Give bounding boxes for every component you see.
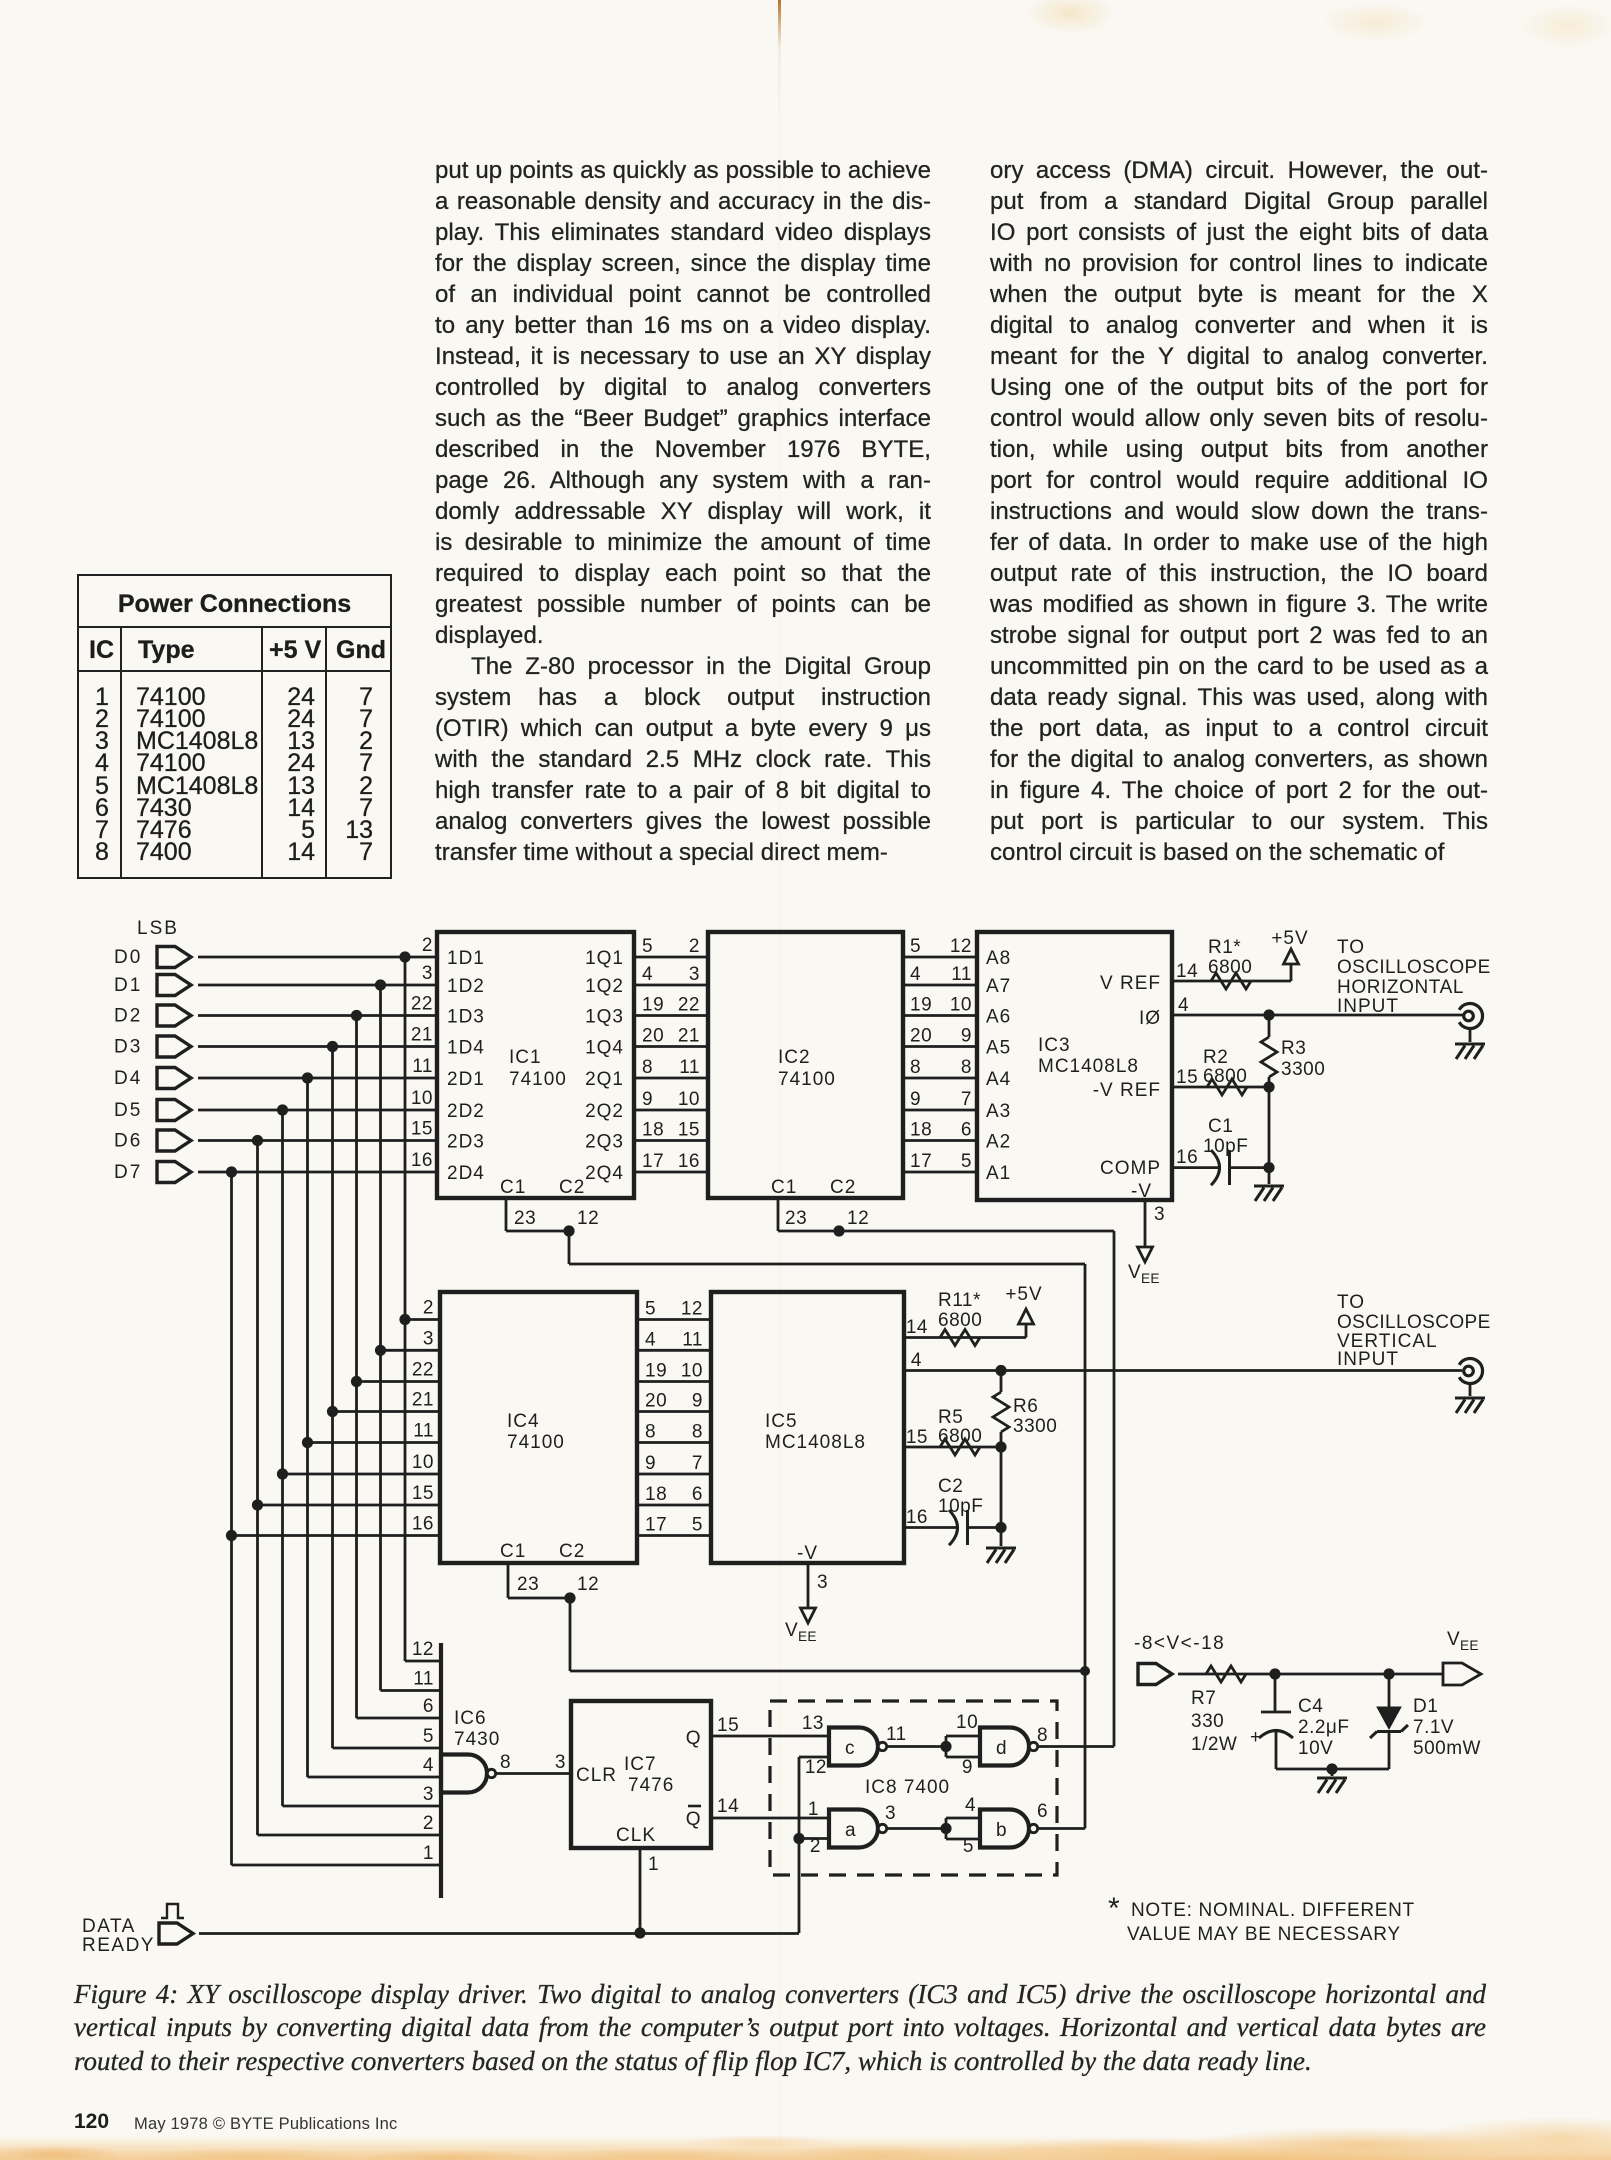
svg-text:5: 5 [423, 1726, 434, 1747]
svg-text:IØ: IØ [1139, 1008, 1161, 1029]
svg-text:Q: Q [686, 1809, 701, 1830]
svg-text:74100: 74100 [509, 1069, 567, 1090]
svg-text:12: 12 [805, 1757, 827, 1778]
svg-text:7.1V: 7.1V [1413, 1717, 1454, 1738]
svg-text:12: 12 [847, 1208, 869, 1229]
svg-text:+: + [1250, 1727, 1262, 1748]
svg-text:IC5: IC5 [765, 1411, 798, 1432]
svg-text:3: 3 [423, 1328, 434, 1349]
svg-text:VALUE MAY BE NECESSARY: VALUE MAY BE NECESSARY [1127, 1924, 1401, 1945]
svg-text:1D3: 1D3 [447, 1007, 485, 1028]
svg-text:2: 2 [689, 936, 700, 957]
svg-text:8: 8 [961, 1057, 972, 1078]
svg-text:2Q4: 2Q4 [585, 1163, 624, 1184]
svg-text:10: 10 [411, 1088, 433, 1109]
svg-text:10pF: 10pF [1203, 1136, 1248, 1157]
svg-text:1Q4: 1Q4 [585, 1038, 624, 1059]
svg-text:6: 6 [961, 1120, 972, 1141]
svg-text:21: 21 [678, 1026, 700, 1047]
svg-text:22: 22 [411, 994, 433, 1015]
svg-text:5: 5 [963, 1836, 974, 1857]
svg-text:D2: D2 [114, 1006, 142, 1027]
svg-text:17: 17 [642, 1151, 664, 1172]
svg-text:19: 19 [645, 1361, 667, 1382]
svg-text:15: 15 [906, 1427, 928, 1448]
svg-text:6: 6 [1037, 1801, 1048, 1822]
svg-text:7430: 7430 [454, 1729, 500, 1750]
svg-text:10: 10 [412, 1452, 434, 1473]
svg-text:V: V [1447, 1629, 1460, 1650]
svg-text:C2: C2 [830, 1177, 856, 1198]
svg-text:HORIZONTAL: HORIZONTAL [1337, 977, 1464, 998]
svg-text:19: 19 [910, 995, 932, 1016]
svg-text:1D2: 1D2 [447, 976, 485, 997]
svg-text:A1: A1 [986, 1163, 1011, 1184]
svg-text:C1: C1 [1208, 1116, 1233, 1137]
svg-text:18: 18 [645, 1484, 667, 1505]
svg-text:R2: R2 [1203, 1047, 1228, 1068]
svg-text:8: 8 [645, 1422, 656, 1443]
svg-text:2Q2: 2Q2 [585, 1101, 624, 1122]
svg-text:INPUT: INPUT [1337, 996, 1399, 1017]
svg-text:2D3: 2D3 [447, 1132, 485, 1153]
svg-text:15: 15 [412, 1483, 434, 1504]
svg-text:V: V [785, 1620, 798, 1641]
svg-text:R5: R5 [938, 1407, 963, 1428]
svg-text:A3: A3 [986, 1101, 1011, 1122]
svg-text:12: 12 [950, 936, 972, 957]
svg-text:1Q3: 1Q3 [585, 1007, 624, 1028]
svg-text:a: a [845, 1820, 856, 1841]
svg-text:7: 7 [692, 1453, 703, 1474]
svg-text:A8: A8 [986, 948, 1011, 969]
svg-text:-V: -V [1131, 1181, 1152, 1202]
svg-text:-V REF: -V REF [1093, 1080, 1161, 1101]
svg-text:CLK: CLK [616, 1825, 656, 1846]
svg-text:11: 11 [413, 1669, 434, 1690]
svg-text:V: V [1128, 1262, 1141, 1283]
svg-text:14: 14 [717, 1796, 739, 1817]
svg-text:22: 22 [412, 1360, 434, 1381]
svg-text:3: 3 [817, 1572, 828, 1593]
svg-text:A5: A5 [986, 1038, 1011, 1059]
svg-text:A7: A7 [986, 976, 1011, 997]
svg-text:A4: A4 [986, 1069, 1011, 1090]
svg-text:10: 10 [956, 1712, 978, 1733]
svg-text:9: 9 [642, 1089, 653, 1110]
svg-text:4: 4 [642, 964, 653, 985]
svg-text:13: 13 [802, 1713, 824, 1734]
svg-text:C2: C2 [559, 1177, 585, 1198]
svg-text:11: 11 [679, 1057, 700, 1078]
svg-text:8: 8 [692, 1422, 703, 1443]
svg-text:2: 2 [422, 935, 433, 956]
svg-text:14: 14 [906, 1317, 928, 1338]
svg-text:8: 8 [642, 1057, 653, 1078]
svg-text:2Q1: 2Q1 [585, 1069, 624, 1090]
svg-text:EE: EE [798, 1629, 817, 1644]
svg-text:10V: 10V [1298, 1738, 1333, 1759]
svg-text:5: 5 [642, 936, 653, 957]
svg-text:2.2μF: 2.2μF [1298, 1717, 1349, 1738]
svg-text:4: 4 [423, 1755, 434, 1776]
svg-text:16: 16 [1176, 1147, 1198, 1168]
svg-text:6: 6 [423, 1696, 434, 1717]
svg-text:12: 12 [577, 1208, 599, 1229]
svg-text:9: 9 [645, 1453, 656, 1474]
svg-text:7: 7 [961, 1089, 972, 1110]
svg-text:4: 4 [911, 1350, 922, 1371]
svg-text:IC3: IC3 [1038, 1035, 1071, 1056]
svg-text:10: 10 [681, 1361, 703, 1382]
svg-text:IC6: IC6 [454, 1708, 487, 1729]
svg-text:23: 23 [517, 1574, 539, 1595]
svg-text:D6: D6 [114, 1131, 142, 1152]
svg-text:16: 16 [411, 1150, 433, 1171]
svg-text:OSCILLOSCOPE: OSCILLOSCOPE [1337, 1312, 1491, 1333]
svg-text:2Q3: 2Q3 [585, 1132, 624, 1153]
svg-text:21: 21 [411, 1025, 433, 1046]
svg-text:1/2W: 1/2W [1191, 1734, 1237, 1755]
svg-text:18: 18 [642, 1120, 664, 1141]
svg-text:IC4: IC4 [507, 1411, 540, 1432]
svg-text:12: 12 [577, 1574, 599, 1595]
svg-text:2: 2 [423, 1298, 434, 1319]
svg-text:Q: Q [686, 1728, 701, 1749]
svg-text:2D4: 2D4 [447, 1163, 485, 1184]
svg-text:17: 17 [910, 1151, 932, 1172]
svg-text:9: 9 [692, 1391, 703, 1412]
svg-text:*: * [1108, 1892, 1120, 1925]
svg-text:20: 20 [645, 1391, 667, 1412]
svg-text:R6: R6 [1013, 1396, 1038, 1417]
svg-text:D1: D1 [1413, 1696, 1438, 1717]
svg-text:23: 23 [514, 1208, 536, 1229]
svg-text:d: d [996, 1738, 1007, 1759]
svg-text:R11*: R11* [938, 1290, 981, 1311]
svg-text:D1: D1 [114, 975, 142, 996]
svg-text:b: b [996, 1820, 1007, 1841]
svg-text:-V: -V [797, 1543, 818, 1564]
svg-text:1: 1 [648, 1854, 659, 1875]
svg-text:1: 1 [808, 1799, 819, 1820]
svg-text:5: 5 [645, 1299, 656, 1320]
svg-text:21: 21 [412, 1390, 434, 1411]
svg-text:23: 23 [785, 1208, 807, 1229]
svg-text:11: 11 [412, 1056, 433, 1077]
svg-text:19: 19 [642, 995, 664, 1016]
svg-text:CLR: CLR [576, 1765, 617, 1786]
svg-text:4: 4 [645, 1329, 656, 1350]
svg-text:6800: 6800 [938, 1310, 982, 1331]
svg-text:12: 12 [412, 1639, 434, 1660]
svg-text:1Q1: 1Q1 [585, 948, 624, 969]
svg-text:12: 12 [681, 1299, 703, 1320]
svg-text:IC2: IC2 [778, 1047, 811, 1068]
svg-text:14: 14 [1176, 961, 1198, 982]
svg-text:IC7: IC7 [624, 1754, 657, 1775]
svg-text:9: 9 [962, 1757, 973, 1778]
svg-text:5: 5 [910, 936, 921, 957]
svg-text:500mW: 500mW [1413, 1738, 1481, 1759]
svg-text:9: 9 [961, 1026, 972, 1047]
svg-text:R7: R7 [1191, 1688, 1216, 1709]
svg-text:3: 3 [423, 1784, 434, 1805]
svg-text:9: 9 [910, 1089, 921, 1110]
svg-text:10: 10 [950, 995, 972, 1016]
svg-text:1D1: 1D1 [447, 948, 485, 969]
svg-text:NOTE: NOMINAL. DIFFERENT: NOTE: NOMINAL. DIFFERENT [1131, 1900, 1415, 1921]
svg-text:A2: A2 [986, 1132, 1011, 1153]
svg-text:7476: 7476 [628, 1775, 674, 1796]
svg-text:C4: C4 [1298, 1696, 1323, 1717]
svg-text:5: 5 [961, 1151, 972, 1172]
svg-text:22: 22 [678, 995, 700, 1016]
svg-text:11: 11 [951, 964, 972, 985]
svg-text:EE: EE [1141, 1271, 1160, 1286]
svg-text:15: 15 [717, 1715, 739, 1736]
svg-text:74100: 74100 [778, 1069, 836, 1090]
svg-text:1: 1 [423, 1843, 434, 1864]
svg-text:COMP: COMP [1100, 1158, 1161, 1179]
svg-text:8: 8 [1037, 1725, 1048, 1746]
svg-text:D5: D5 [114, 1100, 142, 1121]
svg-text:18: 18 [910, 1120, 932, 1141]
svg-text:15: 15 [678, 1120, 700, 1141]
svg-text:10pF: 10pF [938, 1496, 983, 1517]
svg-text:A6: A6 [986, 1007, 1011, 1028]
svg-text:8: 8 [500, 1752, 511, 1773]
svg-text:2D1: 2D1 [447, 1069, 485, 1090]
svg-text:3: 3 [689, 964, 700, 985]
svg-text:D3: D3 [114, 1037, 142, 1058]
svg-text:74100: 74100 [507, 1432, 565, 1453]
svg-text:READY: READY [82, 1935, 155, 1956]
svg-text:MC1408L8: MC1408L8 [1038, 1056, 1139, 1077]
svg-text:4: 4 [910, 964, 921, 985]
svg-text:DATA: DATA [82, 1916, 136, 1937]
svg-text:OSCILLOSCOPE: OSCILLOSCOPE [1337, 957, 1491, 978]
svg-text:1D4: 1D4 [447, 1038, 485, 1059]
svg-text:IC1: IC1 [509, 1047, 542, 1068]
svg-text:V REF: V REF [1100, 973, 1161, 994]
svg-text:+5V: +5V [1271, 928, 1308, 949]
svg-text:330: 330 [1191, 1711, 1224, 1732]
svg-text:16: 16 [678, 1151, 700, 1172]
svg-text:4: 4 [965, 1795, 976, 1816]
svg-text:R3: R3 [1281, 1038, 1306, 1059]
svg-text:16: 16 [412, 1514, 434, 1535]
svg-text:MC1408L8: MC1408L8 [765, 1432, 866, 1453]
svg-text:1Q2: 1Q2 [585, 976, 624, 997]
svg-text:6800: 6800 [938, 1426, 982, 1447]
svg-text:15: 15 [1176, 1067, 1198, 1088]
svg-text:D0: D0 [114, 947, 142, 968]
svg-text:2: 2 [423, 1813, 434, 1834]
svg-text:11: 11 [682, 1329, 703, 1350]
svg-text:11: 11 [886, 1724, 907, 1745]
svg-text:17: 17 [645, 1515, 667, 1536]
svg-text:6800: 6800 [1203, 1066, 1247, 1087]
svg-text:3: 3 [1154, 1204, 1165, 1225]
svg-text:3: 3 [885, 1803, 896, 1824]
svg-text:11: 11 [413, 1421, 434, 1442]
svg-text:R1*: R1* [1208, 937, 1241, 958]
svg-text:20: 20 [642, 1026, 664, 1047]
svg-text:IC8 7400: IC8 7400 [865, 1777, 950, 1798]
svg-text:8: 8 [910, 1057, 921, 1078]
svg-text:4: 4 [1178, 995, 1189, 1016]
svg-text:20: 20 [910, 1026, 932, 1047]
svg-text:3300: 3300 [1013, 1416, 1057, 1437]
svg-text:3: 3 [422, 963, 433, 984]
svg-text:10: 10 [678, 1089, 700, 1110]
svg-text:c: c [845, 1738, 855, 1759]
svg-text:D7: D7 [114, 1162, 142, 1183]
svg-text:C1: C1 [771, 1177, 797, 1198]
svg-text:2D2: 2D2 [447, 1101, 485, 1122]
svg-text:3300: 3300 [1281, 1059, 1325, 1080]
svg-text:-8<V<-18: -8<V<-18 [1134, 1633, 1225, 1654]
svg-text:6800: 6800 [1208, 957, 1252, 978]
svg-text:15: 15 [411, 1119, 433, 1140]
svg-text:5: 5 [692, 1515, 703, 1536]
svg-text:EE: EE [1460, 1638, 1479, 1653]
svg-text:LSB: LSB [137, 918, 179, 939]
svg-text:TO: TO [1337, 937, 1365, 958]
svg-text:D4: D4 [114, 1068, 142, 1089]
svg-text:C2: C2 [938, 1476, 963, 1497]
svg-text:3: 3 [555, 1752, 566, 1773]
svg-text:C1: C1 [500, 1177, 526, 1198]
svg-text:C2: C2 [559, 1541, 585, 1562]
svg-text:TO: TO [1337, 1292, 1365, 1313]
svg-text:6: 6 [692, 1484, 703, 1505]
svg-text:16: 16 [906, 1507, 928, 1528]
svg-text:INPUT: INPUT [1337, 1349, 1399, 1370]
svg-text:C1: C1 [500, 1541, 526, 1562]
svg-text:+5V: +5V [1005, 1284, 1042, 1305]
